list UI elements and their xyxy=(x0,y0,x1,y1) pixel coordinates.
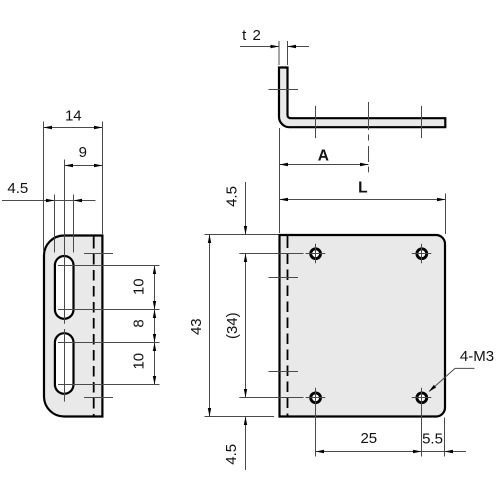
dimension 25 xyxy=(316,430,422,453)
dimension t 2 xyxy=(240,27,309,65)
svg-text:4.5: 4.5 xyxy=(223,444,240,465)
L profile outline xyxy=(279,68,445,128)
dimension A xyxy=(280,128,369,233)
bend ticks xyxy=(269,277,299,279)
svg-text:8: 8 xyxy=(130,319,147,327)
svg-text:9: 9 xyxy=(79,144,87,161)
dimension 43 xyxy=(188,235,278,417)
dimension (34) xyxy=(224,254,304,398)
dimension 4.5 bottom xyxy=(223,417,247,471)
bend line (dashed) front view xyxy=(287,234,289,416)
svg-text:4-M3: 4-M3 xyxy=(460,348,494,365)
bend line (dashed) left view xyxy=(93,235,95,417)
dimension 4.5 (slot width) xyxy=(2,180,96,253)
svg-text:4.5: 4.5 xyxy=(224,186,241,207)
svg-text:43: 43 xyxy=(188,318,205,335)
flange outline xyxy=(44,236,102,417)
svg-text:10: 10 xyxy=(130,353,147,370)
svg-text:4.5: 4.5 xyxy=(7,180,28,197)
dimension L xyxy=(280,179,446,234)
svg-text:A: A xyxy=(318,148,329,165)
svg-text:10: 10 xyxy=(130,278,147,295)
plate outline xyxy=(280,235,446,417)
dimensions 10 / 8 / 10 (right of left view) xyxy=(58,266,160,385)
dimension 9 xyxy=(65,144,103,402)
label 4-M3 with leader xyxy=(429,348,494,392)
hole top-left xyxy=(306,244,326,264)
svg-text:5.5: 5.5 xyxy=(422,430,443,447)
svg-text:14: 14 xyxy=(65,107,82,124)
hole top-right xyxy=(412,244,432,264)
hole-center tick lower (crossing bend line) xyxy=(84,397,113,399)
hole-center tick upper (crossing bend line) xyxy=(84,253,113,255)
slot 1 xyxy=(55,256,74,319)
hole bottom-right xyxy=(412,388,432,457)
dimension 14 xyxy=(44,107,103,250)
tick across vertical leg (hole height) xyxy=(269,89,299,91)
tick hole position left xyxy=(315,106,317,138)
svg-text:L: L xyxy=(358,179,367,196)
dimension 5.5 xyxy=(422,418,467,457)
svg-text:t 2: t 2 xyxy=(242,27,262,44)
hole bottom-left xyxy=(306,388,326,457)
dimension 4.5 top xyxy=(224,182,248,235)
centre line (dash-dot) xyxy=(368,102,370,172)
slot 2 xyxy=(55,333,74,394)
tick hole position right xyxy=(421,106,423,138)
svg-text:25: 25 xyxy=(360,430,377,447)
svg-text:(34): (34) xyxy=(224,312,241,339)
